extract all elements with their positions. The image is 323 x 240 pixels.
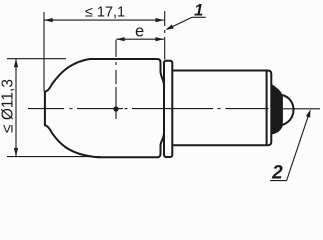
leader line label 2 [270, 180, 287, 182]
insulator (black) [272, 84, 283, 135]
svg-text:1: 1 [194, 1, 203, 19]
arrowhead leader 1 [166, 25, 174, 30]
leader line label 1 [192, 16, 206, 18]
main axis centerline [28, 108, 320, 110]
arrowhead right of dimension e [156, 37, 164, 41]
bulb outline [45, 59, 164, 157]
svg-text:2: 2 [271, 162, 283, 183]
extension line left end of dimension 17,1 [43, 12, 45, 92]
extension line bottom of diameter 11,3 [7, 156, 100, 158]
filament light centre dot [113, 106, 118, 111]
reference plane vertical dash-dot line (seating plane) [164, 11, 166, 26]
arrowhead left of dimension e [116, 37, 124, 41]
arrowhead down of diameter 11,3 [14, 148, 18, 156]
solder contact tip dome [282, 95, 293, 125]
light centre vertical dash-dot line [115, 40, 117, 57]
extension line top of diameter 11,3 [7, 58, 66, 60]
svg-text:≤ 17,1: ≤ 17,1 [85, 5, 125, 21]
cap flange [164, 61, 172, 157]
dimension line e [116, 38, 164, 40]
cap shell [172, 71, 271, 146]
arrowhead leader 2 [306, 109, 311, 117]
cap shell end line [266, 71, 268, 146]
arrowhead right of dimension 17,1 [156, 18, 164, 22]
arrowhead up of diameter 11,3 [14, 59, 18, 67]
dimension line ≤17,1 [44, 19, 164, 21]
arrowhead left of dimension 17,1 [44, 18, 52, 22]
svg-text:≤ Ø11,3: ≤ Ø11,3 [0, 79, 16, 133]
dimension line diameter 11,3 [15, 59, 17, 156]
svg-text:e: e [135, 23, 144, 41]
